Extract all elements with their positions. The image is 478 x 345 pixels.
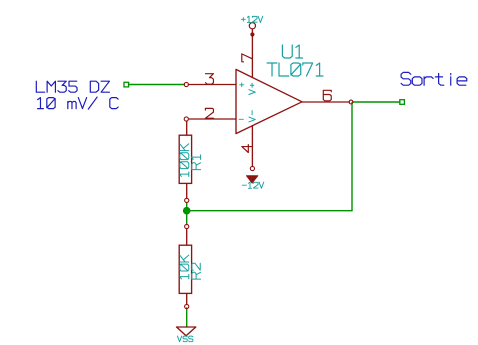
op-amp U1 triangle body <box>236 69 302 133</box>
pin 7 connection dot <box>251 33 254 36</box>
resistor R2 top lead <box>186 229 188 246</box>
pin number 6 <box>323 90 331 101</box>
-12V label <box>242 182 263 188</box>
U1 pin 4 (V-) line <box>251 126 253 167</box>
net label Sortie <box>401 72 467 85</box>
text label LM35 DZ <box>36 81 109 92</box>
ground label vss <box>177 336 192 342</box>
non-inverting input + marker <box>240 83 244 87</box>
resistor R1 body <box>179 135 191 183</box>
V+ power pin marker (rotated) <box>249 83 255 94</box>
V- power pin marker (rotated) <box>249 111 255 122</box>
output terminal square (Sortie net end) <box>400 100 405 105</box>
pin number 4 (rotated) <box>242 145 253 153</box>
wire between R1 bottom and R2 top <box>186 203 188 225</box>
inverting input - marker <box>239 118 243 120</box>
U1 pin 4 end circle <box>250 166 254 170</box>
pin number 7 (rotated) <box>242 54 253 62</box>
wire from LM35 input terminal to U1 pin 3 <box>129 84 185 86</box>
feedback wire vertical segment <box>351 103 353 211</box>
R2 bottom pin end circle <box>185 304 189 308</box>
R1 bottom pin end circle <box>185 198 189 202</box>
ground symbol vss triangle <box>177 327 196 336</box>
R1 value label 100K (rotated) <box>180 144 189 177</box>
U1 pin 6 (OUT) line <box>302 101 350 103</box>
+12V supply circle <box>249 23 255 29</box>
text label 10 mV/ C <box>38 97 119 109</box>
junction node at R1/R2/feedback <box>183 207 190 214</box>
U1 pin 2 end circle <box>184 117 188 121</box>
U1 pin 6 end circle <box>349 100 353 104</box>
input terminal square (LM35 net end) <box>124 82 129 87</box>
pin number 3 <box>206 74 214 85</box>
R2 value label 10K (rotated) <box>180 255 189 279</box>
resistor R1 bottom lead <box>186 184 188 199</box>
wire from U1 pin 6 to Sortie terminal <box>353 101 401 103</box>
U1 value label TL071 <box>267 63 323 76</box>
U1 pin 3 (+IN) line <box>189 84 237 86</box>
R2 top pin end circle <box>185 224 189 228</box>
R2 name label (rotated) <box>192 263 201 279</box>
+12V label <box>241 16 262 22</box>
U1 name label <box>282 45 302 58</box>
wire from R2 bottom to ground <box>186 308 188 327</box>
resistor R2 body <box>179 245 191 293</box>
-12V supply filled triangle <box>246 176 258 184</box>
U1 pin 7 (V+) line <box>251 29 253 78</box>
feedback wire horizontal segment <box>187 210 352 212</box>
U1 pin 2 (-IN) line <box>189 118 237 120</box>
R1 name label (rotated) <box>192 155 201 170</box>
pin number 2 <box>205 108 213 118</box>
resistor R1 top lead <box>186 121 188 135</box>
resistor R2 bottom lead <box>186 294 188 305</box>
U1 pin 3 end circle <box>184 82 188 86</box>
